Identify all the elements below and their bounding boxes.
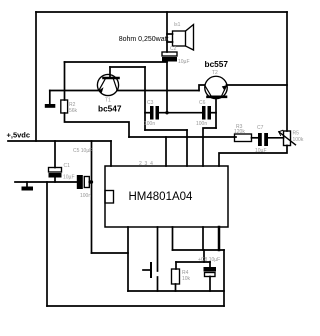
wire top rail bbox=[36, 11, 287, 13]
wire base drop Q1 bbox=[109, 67, 111, 77]
wire R3 to C7 bbox=[252, 137, 259, 139]
wire C7 to pot bbox=[268, 137, 284, 139]
wire IC pin x172 bbox=[172, 227, 174, 250]
capacitor C7 bbox=[258, 133, 268, 146]
transistor Q2 bc557 bbox=[205, 76, 228, 99]
switch S1 bbox=[143, 227, 158, 291]
wire bus to bottom rail bbox=[223, 250, 225, 306]
transistor Q1 bc547 bbox=[97, 74, 118, 95]
speaker LS1 bbox=[173, 25, 194, 51]
wire ground2 drop bbox=[26, 182, 28, 187]
svg-text:10k: 10k bbox=[182, 276, 191, 282]
wire IC pin x128 long bbox=[127, 227, 129, 291]
svg-text:56k: 56k bbox=[69, 108, 78, 114]
svg-text:+,5vdc: +,5vdc bbox=[7, 131, 31, 140]
svg-text:10µF: 10µF bbox=[63, 175, 75, 181]
wire ground drop bbox=[49, 91, 51, 105]
svg-text:C3: C3 bbox=[147, 100, 154, 106]
wire collector row Q1 bbox=[117, 90, 199, 92]
svg-text:C2: C2 bbox=[170, 46, 177, 52]
wire y130 line bbox=[145, 129, 187, 131]
resistor R4 bbox=[172, 269, 180, 284]
svg-text:10µF: 10µF bbox=[178, 59, 190, 65]
svg-text:8ohm 0,250watt: 8ohm 0,250watt bbox=[119, 36, 169, 43]
capacitor C1 bbox=[49, 168, 62, 178]
capacitor C2 (electrolytic under speaker) bbox=[162, 52, 177, 62]
wire pot bottom route to IC bbox=[219, 146, 287, 167]
wire R4 top bbox=[175, 262, 177, 269]
capacitor C6 bbox=[202, 106, 211, 120]
svg-text:bc547: bc547 bbox=[98, 104, 122, 114]
resistor R3 bbox=[235, 134, 252, 142]
wire gnd rail y183 bbox=[15, 181, 77, 183]
svg-text:120k: 120k bbox=[234, 129, 245, 135]
wire y262 line bbox=[176, 261, 210, 263]
svg-text:C5 10µF: C5 10µF bbox=[73, 148, 92, 154]
svg-text:T1: T1 bbox=[105, 98, 111, 104]
wire IC pin x187 bbox=[186, 130, 188, 166]
svg-text:T2: T2 bbox=[212, 70, 218, 76]
wire right vertical to pot top bbox=[286, 12, 288, 131]
wire IC pin x166 bbox=[165, 137, 167, 166]
node dot C5 bbox=[89, 180, 93, 184]
wire left border bbox=[35, 12, 37, 141]
wire speaker feed bbox=[166, 12, 168, 52]
ground G1 bbox=[45, 104, 56, 108]
wire base jog to IC bbox=[203, 128, 216, 166]
wire bottom rail bbox=[47, 305, 224, 307]
wire C8 bottom bbox=[209, 277, 211, 292]
svg-text:ls1: ls1 bbox=[174, 22, 181, 28]
wire C6 right stub bbox=[211, 112, 216, 114]
wire Q2 base drop bbox=[215, 98, 217, 128]
wire R2 top bbox=[64, 62, 66, 100]
wire R2 bottom route bbox=[65, 113, 130, 137]
capacitor C3 bbox=[150, 106, 159, 120]
wire IC power pins bottom left bbox=[92, 252, 129, 254]
wire speaker terminal bottom bbox=[167, 41, 173, 43]
wire R2 net to R3 row bbox=[129, 136, 236, 138]
capacitor C5 bbox=[77, 175, 90, 189]
wire emitter row to ground bbox=[50, 90, 99, 92]
capacitor C8 bbox=[204, 262, 217, 277]
wire power rail bbox=[8, 140, 111, 142]
IC U1 HM4801A04 bbox=[105, 166, 228, 227]
wire x145 vertical bbox=[144, 67, 146, 130]
wire Q2 collector row bbox=[227, 84, 288, 86]
wire base line y62 bbox=[65, 61, 168, 63]
ground G2 bbox=[22, 187, 34, 191]
wire C1 stem bbox=[54, 141, 56, 168]
wire C5 to IC bbox=[89, 181, 92, 183]
svg-text:100k: 100k bbox=[293, 137, 304, 143]
wire power drop x91.5 bbox=[91, 141, 93, 253]
wire R4 bottom bbox=[175, 284, 177, 291]
svg-text:HM4801A04: HM4801A04 bbox=[129, 191, 194, 203]
wire rail drop into IC pin bbox=[110, 141, 112, 166]
svg-text:100n: 100n bbox=[196, 121, 207, 127]
wire IC pin x203 bbox=[202, 227, 204, 250]
svg-text:C1: C1 bbox=[64, 163, 71, 169]
wire jog to Q2 emitter bbox=[199, 85, 205, 91]
wire bus drop x204 bbox=[203, 250, 205, 262]
wire IC pin x219 thick bbox=[218, 227, 221, 250]
svg-text:100n: 100n bbox=[80, 193, 91, 199]
svg-text:C6: C6 bbox=[199, 100, 206, 106]
svg-text:2 3 4: 2 3 4 bbox=[139, 161, 153, 167]
wire line y67 bbox=[110, 66, 145, 68]
svg-text:R5: R5 bbox=[293, 131, 300, 137]
wire left long vertical bbox=[46, 182, 48, 306]
resistor R2 bbox=[61, 100, 68, 113]
svg-text:bc557: bc557 bbox=[205, 59, 229, 69]
wire switch net bottom bbox=[128, 290, 224, 292]
svg-text:100n: 100n bbox=[144, 121, 155, 127]
wire C1 bottom bbox=[54, 178, 56, 183]
wire C3 left stub bbox=[145, 112, 150, 114]
wire C2 bottom to junction bbox=[166, 62, 168, 114]
wire C3 to C6 line y113 bbox=[159, 112, 202, 114]
potentiometer R5 bbox=[279, 130, 296, 145]
svg-text:+C8 10µF: +C8 10µF bbox=[198, 257, 220, 263]
wire bottom bus y250 bbox=[173, 249, 225, 251]
svg-text:C7: C7 bbox=[257, 125, 264, 131]
node junction dot bbox=[165, 111, 168, 114]
wire speaker terminal top bbox=[167, 33, 173, 35]
